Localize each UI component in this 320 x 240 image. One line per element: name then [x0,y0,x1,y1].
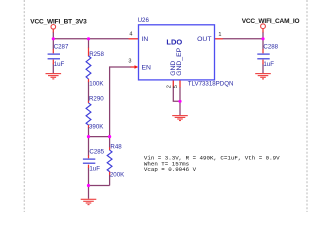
op-amp U26 LDO box TLV73318PDQN [139,25,215,80]
node divider right [108,135,111,138]
wire node row [89,136,110,138]
wire bottom row [89,185,110,187]
ground for C285 [81,199,97,204]
wire R290 bottom to node [88,127,90,136]
sheet border right [306,0,308,212]
wire GND pins joining [173,87,180,115]
ground for C287 [46,74,62,79]
svg-text:R290: R290 [89,95,104,102]
svg-text:100K: 100K [89,80,104,87]
svg-text:390K: 390K [89,124,104,131]
svg-text:200K: 200K [110,172,125,179]
wire OUT net [223,32,264,74]
sheet border left [23,0,25,212]
capacitor C287 [48,54,60,59]
svg-text:C288: C288 [263,44,278,51]
capacitor C288 [257,54,269,59]
wire R48 column [109,137,111,186]
svg-text:VCC_WIFI_CAM_IO: VCC_WIFI_CAM_IO [242,18,300,25]
svg-text:1uF: 1uF [89,166,100,173]
svg-text:IN: IN [142,36,149,43]
node GND join [178,100,181,103]
ground for U26 GND [172,116,188,121]
wire rail VCC to IN pin [53,32,128,39]
pin stubs R290 [88,101,90,128]
node OUT-C288 [261,37,264,40]
pin stub OUT (1) [215,38,223,40]
svg-text:TLV73318PDQN: TLV73318PDQN [188,81,234,88]
svg-text:4: 4 [129,32,132,38]
pin stub IN (4) [129,38,139,40]
pin stubs C287 [52,49,54,64]
pin stub GND (2) [172,80,174,87]
pin stubs R48 [109,147,111,175]
svg-text:3: 3 [128,59,131,65]
pin stubs C285 [88,155,90,168]
svg-text:1uF: 1uF [263,61,274,68]
svg-text:GND_EP: GND_EP [176,47,183,75]
pin stub GND_EP (5) [179,80,181,87]
svg-text:1uF: 1uF [54,61,65,68]
svg-text:C285: C285 [89,148,104,155]
pin stub power left [52,29,54,32]
wire C285 branch [88,137,90,199]
svg-text:C287: C287 [54,44,69,51]
resistor R48 [107,150,112,172]
svg-text:OUT: OUT [197,36,211,43]
pin stub power right [262,29,264,33]
node divider left [87,135,90,138]
ground for C288 [255,74,271,79]
resistor R290 [86,103,91,125]
svg-text:1: 1 [218,32,221,38]
node rail-R258 [87,37,90,40]
wire EN net [110,67,132,137]
svg-text:5: 5 [173,85,179,88]
node C285 bottom [87,184,90,187]
svg-text:VCC_WIFI_BT_3V3: VCC_WIFI_BT_3V3 [30,18,87,25]
svg-text:LDO: LDO [166,38,182,47]
wire between R258 and R290 [88,82,90,102]
pin stubs R258 [88,48,90,82]
svg-text:U26: U26 [138,17,150,24]
svg-text:R48: R48 [110,144,122,151]
pin number 2 rotated [167,85,173,88]
svg-text:Vcap = 0.9046 V: Vcap = 0.9046 V [144,166,197,173]
svg-text:2: 2 [167,85,173,88]
node rail-C287 [52,37,55,40]
capacitor C285 [83,159,95,163]
power port VCC_WIFI_BT_3V3 [51,25,56,30]
svg-text:R258: R258 [89,51,104,58]
pin stub EN (3) with arrow [131,66,136,68]
pin number 5 rotated [173,85,179,88]
svg-text:EN: EN [142,65,152,72]
wire R258 branch top [88,39,90,48]
wire C287 branch [52,39,54,74]
power port VCC_WIFI_CAM_IO [261,24,266,29]
pin stubs C288 [262,49,264,64]
resistor R258 [86,56,91,79]
